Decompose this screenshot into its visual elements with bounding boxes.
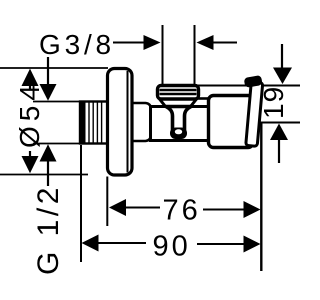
svg-text:90: 90 [153,231,191,263]
dim 76 left arrow [109,199,126,216]
G3/8 arrow right [113,42,145,44]
extension line outlet-top y85 [197,85,300,87]
pipe thread lines [88,103,90,143]
extension line flange-face vertical x107 [106,177,108,227]
extension line axis y122 [258,122,300,124]
svg-text:G 1/2: G 1/2 [32,184,65,275]
extension line pipe-end vertical x81 [80,145,82,262]
outlet trapezoid [160,99,197,107]
dim 90 left arrow [82,235,99,252]
dim O54 up arrow [22,69,39,86]
outlet neck tube with fillets [166,107,191,131]
bonnet block [209,96,254,148]
dim 19 up arrow [270,124,288,141]
extension line pipe bottom y143 [33,143,81,145]
wall flange [108,69,133,176]
svg-text:19: 19 [258,86,289,119]
svg-text:Ø54: Ø54 [14,80,45,148]
dim G12 down arrow [47,57,49,85]
G3/8 arrow left [197,35,214,50]
flange inner edge line [127,71,129,173]
boss line between cap and bonnet [196,97,210,100]
outlet neck seat [170,128,187,140]
dim O54 down arrow [29,151,31,157]
dim 19 down arrow [281,44,283,70]
threaded pipe G1/2 [80,102,108,144]
lever knob [244,75,263,88]
outlet cap G3/8 [158,86,199,100]
svg-text:76: 76 [163,195,201,227]
body tube [151,107,210,141]
svg-text:G3/8: G3/8 [39,29,115,60]
extension line G38 right x195 [194,25,196,85]
dim 76 right arrow [203,209,245,211]
dim 90 right arrow [197,243,245,245]
extension line flange bottom y174 [0,174,88,176]
extension line G38 left x162 [162,25,164,85]
lever paddle [246,82,263,147]
cap thread line 2 [160,93,197,95]
extension line pipe top y102 [33,101,81,103]
extension line flange top y68 [0,67,108,69]
cap thread line 1 [160,89,197,91]
pipe end cap bar [80,101,86,145]
collar behind flange [132,103,151,141]
dimension baseline vertical x261 [260,124,262,272]
dim G12 up arrow [40,144,57,161]
